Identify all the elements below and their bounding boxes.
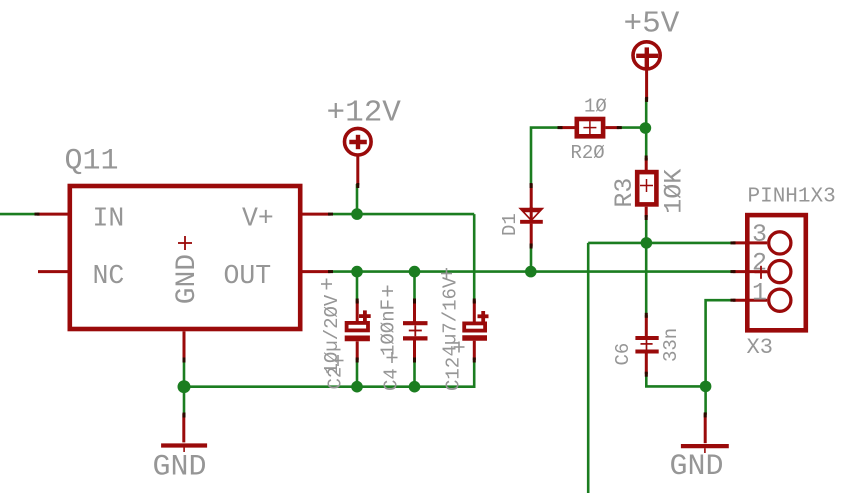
wire R20 right to +5V column [619,126,646,129]
C12 mid cross [454,342,465,353]
svg-text:NC: NC [93,261,125,291]
svg-text:C6: C6 [612,343,634,366]
svg-text:R3: R3 [610,178,639,208]
Q11 origin cross [178,236,192,250]
R20 origin cross [583,121,596,134]
capacitor C6 [635,315,658,374]
wire V+ net horizontal [330,213,474,216]
wire D1/R20 corner [531,128,560,186]
svg-text:33n: 33n [660,328,682,362]
junction R3 bottom [641,237,653,249]
Q11 pin OUT [303,270,331,273]
svg-text:C12: C12 [443,357,465,391]
junction +12V / V+ [351,208,363,220]
svg-text:OUT: OUT [224,261,272,291]
wire C4 bottom stub [413,359,416,387]
connector X3 [733,215,806,330]
regulator Q11 [70,186,300,329]
C2 mid cross [333,355,344,366]
wire IN net from left edge to Q11 IN pin [0,213,38,216]
junction R20 / +5V [640,122,652,134]
wire C6 bottom corner to junction [646,373,705,386]
wire C12 bottom stub [473,359,476,387]
junction C4 bottom [409,381,421,393]
Q11 pin GND [183,331,186,360]
wire V+ net vertical down to C12 [473,214,476,301]
wire OUT net horizontal [330,270,733,273]
svg-text:GND: GND [172,254,203,304]
wire D1 bottom stub [530,246,533,272]
wire C2 top stub [356,272,359,302]
resistor R20 [560,119,619,136]
resistor R3 [637,158,656,217]
Q11 pin IN [37,213,68,216]
C4 mid cross [387,352,398,363]
svg-text:1ØØnF: 1ØØnF [378,299,400,356]
wire +12V stub [356,184,359,214]
svg-text:1ØK: 1ØK [660,169,689,214]
svg-text:V+: V+ [242,203,274,233]
svg-text:+12V: +12V [327,95,402,130]
wire GND row horizontal [184,385,476,388]
X3 origin cross [755,266,768,279]
svg-text:PINH1X3: PINH1X3 [748,185,836,208]
ground symbol GND left [161,414,207,453]
C12 top cross [441,268,452,279]
svg-text:Q11: Q11 [65,145,119,179]
wire C4 top stub [413,272,416,302]
junction C6 / pin1 / GND [700,381,712,393]
junction C2 bottom [351,381,363,393]
pin-to-wire connection tips (dark) [35,97,736,418]
wire GND column left [183,359,186,415]
junction C4 top [409,266,421,278]
capacitor C12 [462,301,488,360]
svg-text:R2Ø: R2Ø [571,142,605,164]
supply symbol +12V [345,128,372,185]
Q11 pin V+ [303,213,331,216]
C4 top cross [382,286,393,297]
svg-text:IN: IN [93,203,125,233]
svg-text:X3: X3 [747,335,773,360]
junction GND left [178,380,191,393]
svg-text:1Øµ/2ØV: 1Øµ/2ØV [321,294,343,374]
C2 top cross [321,279,332,290]
svg-text:1Ø: 1Ø [584,96,607,118]
ground symbol GND right [681,414,729,454]
wire +5V column to R3 [645,128,648,159]
svg-text:C4: C4 [381,368,403,391]
svg-text:D1: D1 [499,213,521,236]
wire +5V stub [645,98,648,128]
R3 origin cross [640,179,653,192]
wire +5Vnet down to C6 [645,243,648,317]
svg-text:1: 1 [752,279,767,308]
wire R3 bottom stub [645,217,648,243]
supply symbol +5V [633,42,660,100]
wire column down off bottom edge [587,243,590,493]
capacitor C2 [345,301,371,360]
svg-text:GND: GND [670,450,724,484]
svg-text:GND: GND [153,451,207,485]
capacitor C4 [403,301,428,360]
junction C2 top [351,266,363,278]
svg-text:+5V: +5V [624,7,680,42]
Q11 pin NC [38,270,68,273]
wire C2 bottom stub [356,359,359,387]
diode D1 [518,184,544,247]
junction D1 bottom [525,266,537,278]
svg-text:3: 3 [752,220,767,249]
wire pin1 column [706,300,733,414]
wire pin3 row [588,242,733,245]
